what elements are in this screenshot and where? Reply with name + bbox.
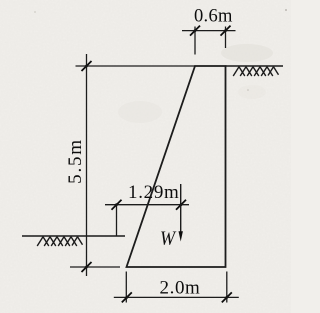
tick at left of 1.29m dimension xyxy=(112,200,122,210)
tick at right of 0.6m dimension xyxy=(221,26,231,36)
extension line below wall bottom-left corner xyxy=(125,272,127,303)
extension line from wall top to 5.5m dimension xyxy=(76,65,196,67)
ink blobs at dimension tick junctions xyxy=(85,29,228,299)
tick at top of 5.5m dimension xyxy=(82,61,92,71)
ground hatch lower left xyxy=(37,237,82,246)
tick at right of 2.0m dimension xyxy=(222,292,232,302)
svg-text:2.0m: 2.0m xyxy=(160,278,201,299)
arrowhead of W xyxy=(179,231,183,241)
tick at left of 0.6m dimension xyxy=(190,26,200,36)
extension line below left 0.6m tick xyxy=(194,27,196,55)
extension line from wall base to 5.5m dimension xyxy=(70,266,120,268)
svg-text:1.29m: 1.29m xyxy=(128,182,180,203)
faint scan shading patches xyxy=(34,9,287,123)
dimension line 0.6m (top) xyxy=(182,30,236,32)
dimension line 1.29m xyxy=(105,204,189,206)
tick at bottom of 5.5m dimension xyxy=(82,262,92,272)
svg-text:5.5m: 5.5m xyxy=(65,138,86,184)
retaining wall outline xyxy=(127,66,226,267)
svg-text:W: W xyxy=(160,228,177,250)
extension line below left 1.29m tick xyxy=(116,205,118,236)
svg-text:0.6m: 0.6m xyxy=(194,6,233,26)
ground surface line lower left xyxy=(22,235,125,237)
extension line below wall bottom-right corner xyxy=(226,272,228,303)
tick at left of 2.0m dimension xyxy=(122,292,132,302)
weight force line W xyxy=(180,184,182,233)
extension line below right 0.6m tick xyxy=(225,27,227,49)
ground hatch upper right xyxy=(233,67,278,76)
dimension line 2.0m (bottom) xyxy=(114,296,239,298)
tick at right of 1.29m dimension xyxy=(176,200,186,210)
ground surface line upper right xyxy=(226,65,284,67)
dimension line 5.5m (vertical) xyxy=(86,54,88,276)
